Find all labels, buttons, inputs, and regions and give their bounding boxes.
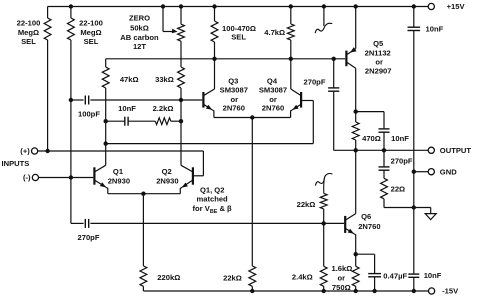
node dot rail 0.47uF (372, 289, 376, 293)
capacitor 270pF mid (328, 87, 339, 89)
transistor Q3 SM3087 (202, 92, 204, 108)
resistor R-bias2 22-100Meg SEL body (68, 18, 75, 40)
wire: feedback line to Q6 base (71, 222, 84, 224)
node dot 4.7k bottom (289, 57, 293, 61)
svg-text:2N1132: 2N1132 (365, 49, 391, 58)
svg-text:0.47µF: 0.47µF (383, 271, 407, 280)
svg-text:2N930: 2N930 (156, 176, 178, 185)
terminal OUTPUT (428, 147, 434, 153)
resistor 470 body (352, 122, 359, 140)
wire: Q5 collector down (355, 68, 357, 111)
wire: 470 leads (355, 112, 357, 122)
node dot 22k mid at base line (322, 221, 326, 225)
node dot Q3Q4 emitter center (250, 115, 254, 119)
svg-text:SM3087: SM3087 (220, 86, 248, 95)
svg-text:SM3087: SM3087 (259, 86, 287, 95)
svg-text:+15V: +15V (447, 2, 466, 11)
svg-text:47kΩ: 47kΩ (120, 75, 139, 84)
wire: 22 bottom to gnd node (383, 199, 385, 208)
wire: 47k bottom down to Q1 collector (105, 88, 107, 165)
svg-text:MegΩ: MegΩ (80, 28, 101, 37)
node dot Q5 collector (354, 109, 358, 113)
svg-text:2N760: 2N760 (223, 103, 245, 112)
node dot (-) at bias2 (69, 175, 73, 179)
node dot rail at 4.7k (289, 4, 293, 8)
wire: 10nF out bottom (383, 132, 385, 150)
node dot rail at wiper stub (161, 4, 165, 8)
squiggle mark mid (315, 173, 332, 185)
wire: top 10nF down GND column (413, 31, 415, 275)
node dot 33k bottom junction (179, 98, 183, 102)
wire: between 10nF and 2.2k (128, 120, 155, 122)
svg-text:SEL: SEL (231, 33, 246, 42)
terminal GND (428, 169, 434, 175)
svg-text:22Ω: 22Ω (391, 185, 406, 194)
resistor 22 body (381, 178, 388, 199)
wire: emitter tail down to 220k (142, 194, 144, 266)
wire: Q4 collector up (290, 59, 292, 89)
resistor 1.6k body (352, 266, 359, 286)
wire: emitter to 0.47uF (356, 253, 375, 255)
node dot gnd line (412, 170, 416, 174)
svg-text:INPUTS: INPUTS (2, 159, 30, 168)
wire: 33k bottom down to Q2 collector (180, 88, 182, 165)
node dot rail at R-bias2 (69, 4, 73, 8)
terminal (+) input (31, 148, 37, 154)
resistor 220k body (140, 266, 147, 286)
svg-text:Q3: Q3 (228, 77, 238, 86)
wire: 100pF line right to Q3 base (90, 99, 202, 101)
svg-text:AB carbon: AB carbon (120, 33, 159, 42)
svg-text:matched: matched (196, 195, 228, 204)
svg-text:GND: GND (440, 167, 457, 176)
resistor R-bias1 22-100Meg SEL body (44, 18, 51, 40)
svg-text:2.2kΩ: 2.2kΩ (153, 104, 174, 113)
capacitor 270pF feedback (84, 219, 86, 228)
svg-text:SEL: SEL (84, 37, 99, 46)
transistor Q5 2N1132 PNP (345, 51, 347, 67)
svg-text:270pF: 270pF (304, 78, 326, 87)
wire: (+) input line (38, 150, 204, 152)
node dot 100pF line at left column (69, 98, 73, 102)
wire: 47k top lead (105, 59, 107, 67)
svg-text:SEL: SEL (21, 37, 36, 46)
node dot rail at pot (179, 4, 183, 8)
wire: 22k tail to rail (251, 286, 253, 291)
wire: gnd line (414, 171, 428, 173)
wire: collector node to 10nF column (356, 111, 384, 113)
resistor 100-470 SEL body (211, 21, 218, 42)
svg-text:12T: 12T (133, 42, 146, 51)
resistor 33k body (178, 67, 185, 88)
node dot rail at top bypass (412, 4, 416, 8)
svg-text:Q5: Q5 (373, 39, 384, 48)
capacitor 0.47uF (368, 273, 381, 275)
wire: rail to 100-470 and down to node line (214, 7, 216, 22)
svg-text:22-100: 22-100 (79, 19, 103, 28)
squiggle mark top (315, 23, 332, 33)
capacitor 10nF top bypass (408, 26, 421, 28)
node dot Q6 emitter (354, 252, 358, 256)
transistor Q4 SM3087 (300, 92, 302, 108)
wire: emitter tail down to 22k bottom (251, 118, 253, 266)
wire: 22k mid bottom (323, 209, 325, 224)
wire: -15V bottom supply rail (143, 290, 428, 292)
transistor Q6 2N760 (344, 216, 346, 233)
pot wiper arrow (172, 29, 178, 34)
svg-text:10nF: 10nF (426, 24, 444, 33)
wire: 2.4k to rail (323, 286, 325, 291)
svg-text:470Ω: 470Ω (362, 134, 381, 143)
wire: Q1 collector line (106, 143, 314, 145)
resistor 47k body (102, 67, 109, 88)
terminal +15V (428, 3, 434, 9)
node dot zobel gnd (412, 205, 416, 209)
node dot output at 470 (354, 148, 358, 152)
svg-text:Q2: Q2 (162, 167, 172, 176)
node dot 100-470 bottom (212, 57, 216, 61)
node dot 270pF top (332, 57, 336, 61)
node dot rail at Q5 emitter (354, 4, 358, 8)
node dot rail bottom 10nF (412, 289, 416, 293)
svg-text:2N760: 2N760 (358, 222, 380, 231)
svg-text:33kΩ: 33kΩ (155, 75, 174, 84)
wire: squiggle to 22k mid (323, 178, 326, 193)
node dot rail at R 100-470 (212, 4, 216, 8)
svg-text:1.6kΩ: 1.6kΩ (331, 264, 352, 273)
svg-text:(+): (+) (20, 147, 30, 156)
svg-text:270pF: 270pF (391, 156, 413, 165)
resistor 2.2k body (155, 118, 171, 125)
svg-text:or: or (375, 57, 383, 66)
svg-text:Q1, Q2: Q1, Q2 (200, 186, 224, 195)
svg-text:Q1: Q1 (113, 167, 124, 176)
svg-text:2.4kΩ: 2.4kΩ (292, 273, 313, 282)
resistor 2.4k body (320, 266, 327, 286)
svg-text:100pF: 100pF (78, 110, 100, 119)
wire: 100pF line left (71, 99, 84, 101)
wire: 270pF out leads (383, 150, 385, 167)
svg-text:ZERO: ZERO (129, 14, 150, 23)
svg-text:2N760: 2N760 (262, 103, 284, 112)
svg-text:2N930: 2N930 (108, 176, 130, 185)
svg-text:750Ω: 750Ω (332, 283, 351, 292)
node dot q1 collector line (104, 141, 108, 145)
wire: Q3 collector up (214, 59, 216, 89)
svg-text:4.7kΩ: 4.7kΩ (264, 28, 285, 37)
wire: Q6 collector up to output (355, 150, 357, 213)
svg-text:-15V: -15V (442, 287, 459, 296)
svg-text:Q6: Q6 (361, 212, 371, 221)
wire: base node down to 2.4k (323, 223, 325, 266)
wire: Q4 base loop (302, 100, 314, 102)
svg-text:22kΩ: 22kΩ (223, 274, 242, 283)
svg-text:100-470Ω: 100-470Ω (222, 24, 256, 33)
wire: Q5 base node line (106, 58, 346, 60)
capacitor 10nF compensation (124, 117, 126, 126)
node dot rail 22k tail (250, 289, 254, 293)
terminal -15V (429, 288, 435, 294)
wire: 1.6k leads (355, 254, 357, 266)
svg-text:(-): (-) (23, 173, 31, 182)
wire: Q1 Q2 emitter line (108, 193, 181, 195)
wire: 2.2k to 33k column (171, 120, 181, 122)
node dot y122 right (179, 119, 183, 123)
svg-text:or: or (338, 274, 346, 283)
resistor 4.7k body (287, 24, 294, 40)
wire: rail to R-bias1 and down to (+) line (47, 7, 49, 19)
svg-text:22kΩ: 22kΩ (297, 200, 316, 209)
terminal (-) input (32, 174, 38, 180)
svg-text:10nF: 10nF (424, 271, 442, 280)
node dot rail 2.4k (322, 289, 326, 293)
wire: 0.47uF to rail (374, 277, 376, 291)
wire: wiper stub from rail (162, 7, 164, 32)
svg-text:22-100: 22-100 (17, 19, 41, 28)
svg-text:2N2907: 2N2907 (365, 67, 392, 76)
svg-text:OUTPUT: OUTPUT (440, 146, 472, 155)
svg-text:220kΩ: 220kΩ (157, 273, 180, 282)
wire: rail down to Q5 emitter (355, 7, 357, 49)
node dot (+) at bias1 (45, 149, 49, 153)
resistor 22k mid body (320, 193, 327, 209)
wire: feedback line right (90, 222, 344, 224)
wire: 220k to rail (142, 286, 144, 291)
wire: gnd col to bottom 10nF (413, 277, 415, 291)
wire: output line (334, 149, 428, 151)
ground symbol (430, 208, 432, 214)
svg-text:10nF: 10nF (391, 134, 409, 143)
wire: +15V top supply rail (48, 6, 429, 8)
node dot output at 10nF (382, 148, 386, 152)
transistor Q1 2N930 (93, 167, 95, 184)
transistor Q2 2N930 (192, 167, 194, 184)
wire: (-) input line to Q1 base (39, 177, 94, 179)
node dot y122 left (104, 119, 108, 123)
resistor 22k tail body (249, 266, 256, 286)
node dot emitter tail (141, 192, 145, 196)
svg-text:Q4: Q4 (267, 77, 278, 86)
wire: rail to R-bias2 and down to (-) line and 270pF corner (70, 7, 72, 19)
node dot rail at squiggle stub (322, 4, 326, 8)
wire: Q3 Q4 emitter line (214, 117, 291, 119)
capacitor 270pF out (379, 166, 390, 168)
svg-text:10nF: 10nF (118, 104, 136, 113)
wire: rail to top 10nF (413, 7, 415, 28)
wire: 270pF mid top lead (333, 59, 335, 88)
wire: squiggle stub (323, 7, 325, 27)
potentiometer ZERO 50k body (178, 24, 185, 41)
node dot rail 1.6k (354, 289, 358, 293)
wire: rail to 4.7k and down to node line (290, 7, 292, 25)
svg-text:50kΩ: 50kΩ (130, 23, 149, 32)
wire: 270pF mid bottom to output line (333, 91, 335, 150)
wire: pot to 33k (180, 7, 182, 25)
capacitor 100pF (84, 96, 86, 105)
wire: 10nF lead (106, 120, 125, 122)
svg-text:MegΩ: MegΩ (18, 28, 39, 37)
svg-text:270pF: 270pF (78, 233, 100, 242)
capacitor 10nF bottom bypass (408, 273, 419, 275)
capacitor 10nF out (379, 128, 390, 130)
